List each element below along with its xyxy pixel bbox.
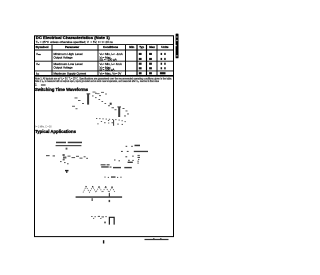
svg-text:Iₒₘ = -100 µA: Iₒₘ = -100 µA (100, 57, 117, 61)
svg-text:Note 2: Iₖₖ is measured with a: Note 2: Iₖₖ is measured with all outputs… (35, 79, 159, 83)
svg-text:Max: Max (149, 45, 155, 49)
svg-text:Tₖ = 25°C unless otherwise spe: Tₖ = 25°C unless otherwise specified; V … (36, 40, 114, 44)
svg-text:Switching Time Waveforms: Switching Time Waveforms (35, 87, 89, 92)
svg-text:Symbol: Symbol (36, 45, 49, 49)
svg-text:Min: Min (129, 45, 134, 49)
svg-text:Units: Units (161, 45, 169, 49)
svg-text:Vₖ= Max, Vₙ= 0V: Vₖ= Max, Vₙ= 0V (100, 71, 122, 75)
svg-text:2.: 2. (35, 82, 37, 86)
svg-text:Vₒₗ: Vₒₗ (36, 62, 40, 66)
svg-text:Vₒₘ: Vₒₘ (36, 52, 41, 56)
svg-text:Typical Applications: Typical Applications (35, 129, 77, 134)
svg-text:Typ: Typ (139, 45, 144, 49)
svg-text:f = 1 MHz, C = 50: f = 1 MHz, C = 50 (35, 125, 52, 129)
svg-text:Output Voltage: Output Voltage (54, 65, 74, 69)
svg-text:Output Voltage: Output Voltage (54, 55, 74, 59)
svg-text:Parameter: Parameter (65, 45, 80, 49)
svg-text:Maximum Supply Current: Maximum Supply Current (54, 71, 87, 75)
svg-text:Conditions: Conditions (103, 45, 118, 49)
